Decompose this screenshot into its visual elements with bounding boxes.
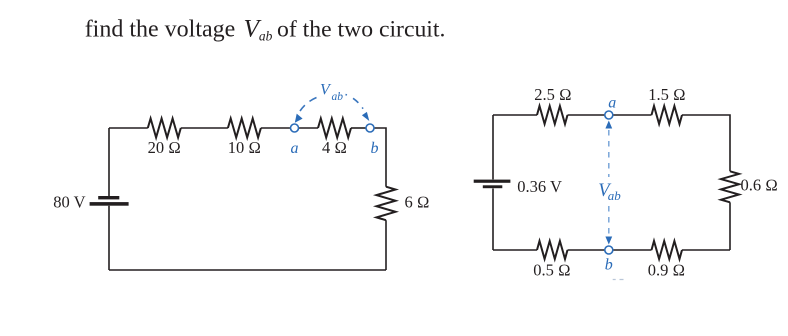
wire: between 20 ohm and 10 ohm [181,127,228,129]
wire: 2.5 ohm to node a [568,114,606,116]
svg-text:2.5 Ω: 2.5 Ω [534,85,571,104]
wire: node b to 0.9 ohm [612,249,651,251]
battery V1 long plate [90,202,129,206]
svg-text:4 Ω: 4 Ω [322,138,347,157]
dashed line Vab upper part [608,130,610,177]
node a (left circuit) [291,124,299,132]
wire: right circuit top-left segment [493,114,537,116]
svg-text:0.5 Ω: 0.5 Ω [533,260,570,279]
svg-text:V: V [320,82,332,99]
resistor 1.5 ohm [652,106,683,124]
svg-text:ab: ab [332,91,344,103]
wire: left side above battery [492,115,494,179]
wire: right side below 0.6 ohm [729,202,731,250]
svg-text:a: a [608,94,616,111]
node b (left circuit) [366,124,374,132]
wire: bottom-right segment [682,249,730,251]
svg-text:0.36 V: 0.36 V [517,177,562,196]
svg-text:1.5 Ω: 1.5 Ω [648,85,685,104]
node b (right circuit) [605,246,613,254]
wire: 0.5 ohm to node b [568,249,606,251]
resistor 0.9 ohm [652,241,683,259]
svg-text:6 Ω: 6 Ω [405,192,430,211]
wire: 1.5 ohm to top-right corner and down [682,115,730,171]
battery V1 short plate [98,196,119,199]
svg-text:b: b [371,140,379,157]
resistor 6 ohm [377,187,396,221]
resistor 4 ohm [318,119,351,138]
dashed line Vab lower part [608,206,610,235]
svg-text:0.9 Ω: 0.9 Ω [648,260,685,279]
wire: right side below 6 ohm [385,220,387,270]
dashed arc to node b [346,95,365,112]
svg-text:80 V: 80 V [53,192,85,211]
stray faint marks [613,279,624,281]
node a (right circuit) [605,111,613,119]
wire: left side below battery [492,189,494,251]
resistor 0.6 ohm [721,171,739,202]
svg-text:ab: ab [608,188,622,203]
wire: 10 ohm to node a [261,127,291,129]
battery V2 short plate [483,185,503,188]
battery V2 long plate [474,180,511,183]
svg-text:ab: ab [259,29,273,44]
svg-text:of the two circuit.: of the two circuit. [277,16,445,42]
svg-text:20 Ω: 20 Ω [148,138,181,157]
wire: bottom of left circuit [109,269,386,271]
dashed arc to node a [300,98,317,112]
svg-text:0.6 Ω: 0.6 Ω [741,175,778,194]
resistor 10 ohm [228,119,261,138]
wire: left side above battery [108,128,110,270]
wire: node b to top-right corner and down [374,128,386,187]
svg-text:a: a [291,140,299,157]
wire: node a to 1.5 ohm [612,114,651,116]
resistor 2.5 ohm [537,106,568,124]
resistor 20 ohm [148,119,181,138]
wire: node a to 4 ohm [298,127,318,129]
wire: 4 ohm to node b [351,127,366,129]
resistor 0.5 ohm [537,241,568,259]
arrowhead at node b [362,112,369,121]
wire: left circuit top-left segment [109,127,148,129]
svg-text:10 Ω: 10 Ω [228,138,261,157]
arrowhead at node a [295,114,303,123]
svg-text:find the voltage: find the voltage [85,16,236,42]
arrowhead down at node b [605,237,612,245]
svg-text:b: b [605,257,613,274]
arrowhead up at node a [605,121,612,129]
wire: bottom-left segment of right circuit [493,249,537,251]
